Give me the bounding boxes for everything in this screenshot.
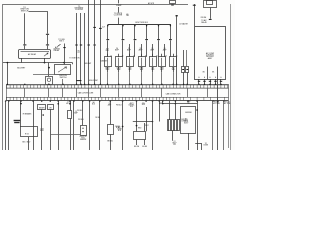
wire BM pin3 down xyxy=(136,140,138,145)
bulkhead row 1 pin ribs (engine side) xyxy=(7,85,228,88)
junction blobs at bulkhead row2 exits xyxy=(5,100,6,101)
junction blobs at bulkhead row1 entries xyxy=(7,84,8,85)
fuse F4 xyxy=(139,57,146,67)
wire x175.4 into body conn xyxy=(175,101,177,120)
wire into relay K1 pin1 xyxy=(24,46,26,50)
tick under small fuse box xyxy=(171,4,174,6)
wire horizontal y121.5 xyxy=(133,121,153,123)
wire x70 lower xyxy=(70,119,72,151)
wire x176.7 long vertical xyxy=(176,15,178,85)
connector C3 on x47.5 xyxy=(46,44,49,46)
wire x119 to label xyxy=(118,7,120,13)
junction x58.2 xyxy=(57,103,59,105)
connector on x94.6 xyxy=(93,26,96,28)
junction J-A on bus xyxy=(44,62,46,64)
wire x99.7 xyxy=(99,101,101,150)
wire x197.1 xyxy=(197,101,199,150)
wire through bulkhead x76.5 xyxy=(76,88,78,97)
tick on x194.3 xyxy=(193,4,196,6)
svg-text:RD WH: RD WH xyxy=(201,17,207,19)
wire into FB1 xyxy=(110,101,112,125)
svg-text:SOL: SOL xyxy=(130,106,133,108)
wire down x47.5 mid xyxy=(47,35,49,44)
svg-text:JUNCTION BLK: JUNCTION BLK xyxy=(135,22,149,24)
svg-text:BLK/WHT: BLK/WHT xyxy=(17,68,26,70)
tick in J2 xyxy=(186,69,188,71)
wire into fuse top x152.7 xyxy=(152,44,154,57)
svg-text:ENG COMP: ENG COMP xyxy=(89,80,98,82)
border frame top xyxy=(3,4,188,6)
svg-text:GN: GN xyxy=(202,72,204,74)
wire x5.6 xyxy=(5,101,7,150)
wire from fusible link xyxy=(210,8,212,19)
ignition position sensor BS xyxy=(81,126,87,136)
wire x201.5 down xyxy=(201,143,203,150)
wire inside U2 left xyxy=(207,67,209,80)
svg-text:GN BK: GN BK xyxy=(142,146,147,148)
fuse F7 xyxy=(170,57,177,67)
U2 bottom pin stubs xyxy=(198,79,200,85)
wire horizontal y103.6 xyxy=(163,103,197,105)
wire through bulkhead x118.7 xyxy=(118,88,120,97)
svg-text:BRN: BRN xyxy=(159,103,162,105)
svg-text:RELAY: RELAY xyxy=(54,49,61,52)
junction x70 xyxy=(69,103,71,105)
svg-text:BLK / BLU: BLK / BLU xyxy=(22,142,31,144)
svg-text:20 GAUGE: 20 GAUGE xyxy=(179,22,188,25)
connector C1 on x24.8 xyxy=(23,44,26,46)
wire horizontal y143.1 xyxy=(195,143,201,145)
fuse F5 xyxy=(150,57,157,67)
svg-text:WH: WH xyxy=(126,15,129,17)
svg-text:GROUND: GROUND xyxy=(185,112,193,114)
wire drop 4 from junction bus xyxy=(146,25,148,39)
wire into BS xyxy=(82,101,84,125)
wire x100.4 xyxy=(100,0,102,85)
fuse F1 xyxy=(105,57,112,67)
wire x194.3 from top border xyxy=(194,4,196,26)
wire x64.5 into B3 xyxy=(64,44,66,65)
wire BM pin4 down xyxy=(144,140,146,145)
wire through bulkhead x161.9 xyxy=(161,88,163,97)
wire x8.8 xyxy=(8,101,10,150)
junction above BM xyxy=(136,125,138,127)
wire x88.7 xyxy=(88,0,90,85)
wire into BM pin1 xyxy=(136,101,138,131)
wire from T1 down xyxy=(41,109,43,150)
bulkhead row 2 pin ribs (cab side) xyxy=(7,97,225,100)
svg-text:JCT: JCT xyxy=(102,26,105,28)
gauge G1 box with circle xyxy=(46,77,53,85)
wire into J1 xyxy=(183,50,185,67)
svg-text:CAB CONTROLLER: CAB CONTROLLER xyxy=(78,91,94,94)
wire into fuse top x129.9 xyxy=(129,44,131,57)
svg-text:CLUSTER: CLUSTER xyxy=(114,15,123,17)
svg-text:PK BLU: PK BLU xyxy=(116,105,123,107)
headlamp dimmer box BL xyxy=(21,127,38,137)
svg-text:PK BLU: PK BLU xyxy=(78,119,85,121)
wire through bulkhead x49 xyxy=(48,88,50,97)
wire x162.7 stub xyxy=(162,101,164,104)
svg-text:OFF: OFF xyxy=(128,69,131,71)
wire into BS left xyxy=(50,134,80,136)
wire into fuse top x164.5 xyxy=(164,44,166,57)
svg-text:SW 2: SW 2 xyxy=(59,41,63,43)
wire from T2 down xyxy=(50,109,52,150)
junction x21 xyxy=(20,103,22,105)
wire from FB1 down xyxy=(110,134,112,150)
wire through bulkhead x141.5 xyxy=(141,88,143,97)
wire relay K1 out2 to bus xyxy=(44,58,46,63)
svg-text:OR BK: OR BK xyxy=(95,117,100,119)
border frame left xyxy=(2,4,4,150)
wire horizontal top feed xyxy=(29,11,48,13)
tick in J1 xyxy=(182,69,184,71)
wire drop 2 from junction bus xyxy=(122,25,124,39)
fuse F2 xyxy=(116,57,123,67)
wire y74.8 left of B3 xyxy=(33,74,55,76)
svg-text:SWITCH: SWITCH xyxy=(21,10,29,12)
wire x169.8 into body conn xyxy=(169,101,171,120)
wire x81 xyxy=(80,13,82,85)
bus wire y62.6 xyxy=(3,62,73,64)
choke heater fuse FB1 xyxy=(108,125,114,135)
wire x186 short xyxy=(186,50,188,66)
wire x21 to headlamp box xyxy=(20,101,22,127)
wire x76.5 xyxy=(76,13,78,85)
connector on x64.5 xyxy=(63,47,65,49)
A/C heater control assembly BR xyxy=(181,107,196,134)
wire B3 to bulkhead xyxy=(62,79,64,85)
in-line fuse FC on x70 xyxy=(68,111,72,119)
wire x84.6 xyxy=(84,13,86,85)
svg-text:CAB CONNECTOR: CAB CONNECTOR xyxy=(166,92,182,95)
cap on x176.7 xyxy=(175,15,178,17)
junction x122.6 xyxy=(122,126,124,128)
junction y103.6 mid xyxy=(175,103,177,105)
relay K1 (horn relay) xyxy=(19,50,51,59)
junction near T1 wire xyxy=(42,114,44,116)
wire x228.3 far right xyxy=(228,101,230,148)
wire x33.1 xyxy=(33,101,35,150)
svg-text:TO IGNITION: TO IGNITION xyxy=(69,57,80,59)
small fuse box top x170 xyxy=(170,1,176,4)
border frame right xyxy=(230,4,232,150)
wire x58.2 xyxy=(58,101,60,150)
wire drop 1 from junction bus xyxy=(107,25,109,39)
junction y121.5 end xyxy=(152,121,154,123)
wire into fuse top x141.5 xyxy=(141,44,143,57)
wire relay K1 out to bus xyxy=(21,58,23,63)
svg-text:OFF: OFF xyxy=(151,69,154,71)
svg-text:GE BLU: GE BLU xyxy=(107,141,114,143)
svg-text:BK/WH: BK/WH xyxy=(39,107,45,109)
wire BL box down xyxy=(28,137,30,150)
wire x152.5 xyxy=(152,101,154,150)
wire x94.6 xyxy=(94,0,96,85)
wire bus to gauge G1 xyxy=(48,63,50,76)
svg-text:DOME: DOME xyxy=(204,145,209,147)
connector on x210.2 xyxy=(209,18,212,20)
A/C compressor control module U2 xyxy=(195,27,226,80)
wire U2 right pin down through bulkhead x217.8 xyxy=(217,67,219,151)
junction x197.1 xyxy=(196,109,198,111)
connector on x94.6 xyxy=(93,44,95,46)
wire down x47.5 upper xyxy=(47,11,49,33)
svg-text:HI BEAMS: HI BEAMS xyxy=(23,113,32,116)
wire from body conn down xyxy=(172,131,174,141)
wire through bulkhead x63 xyxy=(62,88,64,97)
wire x146.1 into BM xyxy=(146,107,148,131)
svg-text:CLUSTER: CLUSTER xyxy=(75,9,84,11)
wire drop 5 from junction bus xyxy=(158,25,160,39)
svg-text:SWITCH: SWITCH xyxy=(60,77,67,79)
svg-text:HD LP: HD LP xyxy=(66,103,71,105)
2-pin connector on x76.5/x81 xyxy=(76,80,81,82)
wire from BR down xyxy=(188,133,190,150)
svg-text:WHT: WHT xyxy=(142,104,145,106)
wire J1 to bulkhead xyxy=(183,72,185,84)
ignition switch feed box B3 xyxy=(55,65,71,75)
junction on gauge wire xyxy=(48,67,50,69)
fusible link box FL xyxy=(204,1,217,8)
svg-text:RELAY: RELAY xyxy=(201,21,207,24)
wire ignition feed down x24.8 xyxy=(24,13,26,44)
wire J2 to bulkhead xyxy=(187,72,189,84)
connector on x81 xyxy=(80,44,82,46)
bulkhead connector body xyxy=(7,85,229,101)
fuse F3 xyxy=(127,57,134,67)
svg-text:BK WH: BK WH xyxy=(134,146,139,148)
wire x89.6 xyxy=(89,101,91,150)
wire x159.3 xyxy=(159,101,161,122)
svg-text:SENSOR: SENSOR xyxy=(80,139,87,141)
wire x119 to junction bus xyxy=(118,18,120,25)
wire corner into box B3 xyxy=(72,63,74,65)
svg-text:BK: BK xyxy=(212,72,214,74)
connector on x100.4 xyxy=(99,27,102,29)
svg-text:GN WHT: GN WHT xyxy=(84,63,91,65)
body connector (hatched) xyxy=(168,120,180,131)
connector C2 on x47.5 xyxy=(46,33,49,35)
terminal label box T1 xyxy=(38,105,46,110)
connector on x76.5 xyxy=(75,44,77,46)
junction box J2 xyxy=(186,67,189,73)
wire through bulkhead x100.4 xyxy=(100,88,102,97)
wire x223.7 far right xyxy=(223,101,225,150)
wire gauge G1 to bulkhead xyxy=(48,84,50,85)
svg-text:GY: GY xyxy=(77,52,79,54)
junction bus y25 xyxy=(108,24,172,26)
wire through bulkhead x24.8 xyxy=(24,88,26,97)
ignition coil box BM xyxy=(134,132,146,140)
wire through bulkhead x88.7 xyxy=(88,88,90,97)
wire x70 upper xyxy=(70,101,72,111)
wire x73.9 xyxy=(73,101,75,150)
wire x213 far right xyxy=(212,101,214,150)
wire into relay K1 pin2 xyxy=(47,46,49,50)
wire x119 top stub xyxy=(118,0,120,3)
wire drop 3 from junction bus xyxy=(134,25,136,39)
svg-text:BLU: BLU xyxy=(92,104,95,106)
junction y103.6 left xyxy=(162,103,164,105)
fuse F6 xyxy=(159,57,166,67)
wire x122.6 xyxy=(122,101,124,150)
junction box J1 xyxy=(182,67,185,73)
terminal label box T2 xyxy=(48,105,54,110)
left vertical wire x7.4 xyxy=(7,63,9,85)
junction J-B on bus xyxy=(63,62,65,64)
wire through bulkhead x187.2 xyxy=(187,88,189,97)
wire into BM pin2 xyxy=(144,123,146,131)
connector on x88.7 xyxy=(88,44,90,46)
wire drop 6 from junction bus xyxy=(170,25,172,39)
wire through bulkhead x207.5 xyxy=(207,88,209,97)
label ORANGE (dark smudge) xyxy=(14,120,21,121)
